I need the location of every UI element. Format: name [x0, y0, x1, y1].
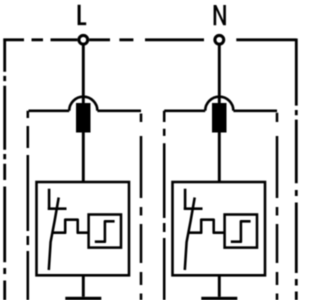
- switch arm module 2: [184, 207, 203, 210]
- wire: N terminal down to disconnector: [218, 44, 221, 103]
- outer enclosure border: right chain line: [295, 39, 298, 300]
- terminal L: [79, 35, 88, 44]
- spark gap switch blade module 1: [49, 198, 59, 271]
- wire: top line L to N: [89, 38, 204, 41]
- thermal disconnector fuse module 1: [76, 103, 91, 133]
- disconnector arc module 1: [69, 97, 97, 111]
- module 1 dashed box: right edge: [140, 114, 143, 300]
- module 1 dashed box: left edge: [27, 111, 30, 300]
- outer enclosure border: left chain line: [3, 39, 6, 300]
- wire: SPD box module 1 to bottom bar: [82, 275, 85, 297]
- wire: fuse to SPD box module 2: [218, 133, 221, 183]
- switch stub module 1: [48, 189, 51, 210]
- wire: fuse to SPD box module 1: [82, 133, 85, 183]
- disconnector arc module 2: [205, 97, 233, 111]
- label N: [214, 5, 226, 25]
- wire: L terminal down to disconnector: [82, 44, 85, 103]
- bottom terminal bar module 1: [65, 297, 101, 300]
- module 2 dashed box: left edge: [163, 111, 166, 300]
- trigger characteristic box module 2: [225, 215, 257, 248]
- impulse link module 2: [188, 220, 225, 233]
- bottom terminal bar module 2: [201, 297, 237, 300]
- module 1 dashed box: top edge with disconnector gap arc: [29, 110, 142, 113]
- label L: [78, 5, 87, 25]
- step characteristic module 1: [95, 221, 115, 241]
- module 2 dashed box: top edge with disconnector gap arc: [164, 110, 277, 113]
- SPD box module 1: [37, 182, 130, 275]
- thermal disconnector fuse module 2: [212, 103, 227, 133]
- trigger characteristic box module 1: [89, 215, 121, 248]
- SPD box module 2: [173, 182, 266, 275]
- terminal N: [215, 35, 224, 44]
- module 2 dashed box: right edge: [276, 113, 279, 300]
- wire: top line right of N: [236, 38, 296, 41]
- step characteristic module 2: [231, 221, 251, 241]
- spark gap switch blade module 2: [185, 198, 195, 271]
- wire: SPD box module 2 to bottom bar: [218, 275, 221, 297]
- switch stub module 2: [184, 189, 187, 210]
- outer enclosure border: top chain line: [3, 38, 77, 41]
- impulse link module 1: [52, 220, 89, 233]
- switch arm module 1: [48, 207, 67, 210]
